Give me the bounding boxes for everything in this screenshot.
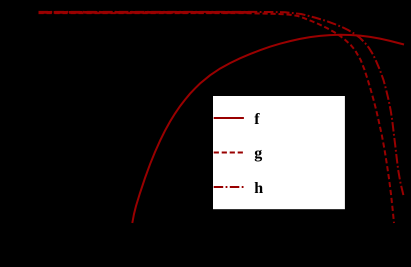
legend h sample (214, 186, 244, 188)
svg-text:h: h (254, 180, 263, 197)
legend box (213, 96, 345, 209)
legend f sample (214, 117, 244, 119)
svg-text:g: g (254, 145, 262, 162)
merged g+h overlap band (top-left) (39, 11, 251, 14)
legend labels (254, 111, 263, 197)
svg-text:f: f (254, 111, 260, 128)
curve g (dashed) (39, 13, 395, 223)
curve f (solid) (132, 35, 404, 223)
curve h (dash-dot) (39, 12, 404, 196)
legend g sample (214, 152, 244, 154)
